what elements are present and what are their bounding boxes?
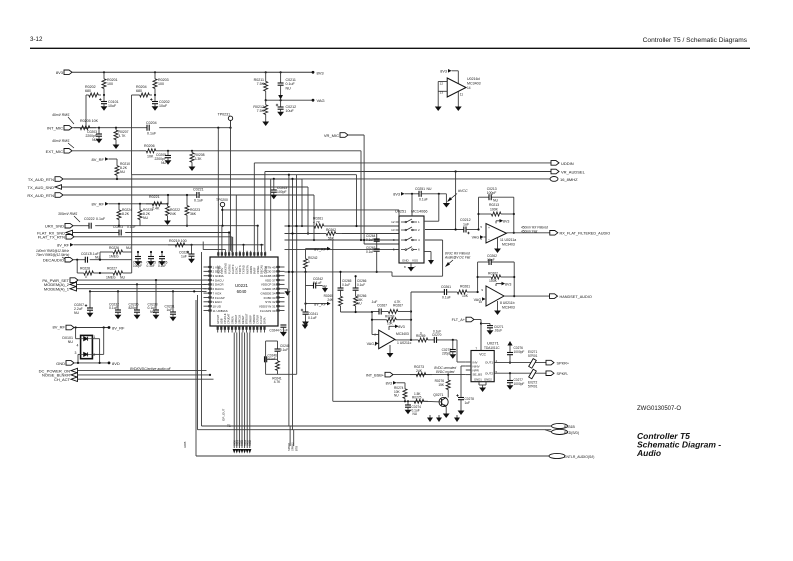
capacitor C0246 [264, 356, 266, 362]
svg-text:11 UDBIAS: 11 UDBIAS [213, 309, 228, 313]
wire 16_8MHZ [271, 178, 551, 180]
wire jog DECAUDIO region to IC [203, 249, 225, 251]
svg-text:1uF: 1uF [463, 223, 470, 227]
capacitor C0226 [161, 252, 163, 257]
svg-text:8VRF: 8VRF [253, 267, 257, 274]
svg-text:EGNC: EGNC [235, 266, 239, 274]
ground below C0243 [273, 192, 275, 195]
ground row arrow 3 [456, 415, 458, 418]
capacitor C0278 [460, 397, 462, 398]
wire DC_POWER_ON [78, 370, 207, 372]
svg-text:0.1uF: 0.1uF [366, 238, 374, 242]
svg-text:NU: NU [120, 275, 125, 279]
wire RX filter output [507, 232, 552, 234]
ground below C0101 [103, 104, 105, 107]
svg-text:R0267: R0267 [393, 304, 403, 308]
ground below C0207 [89, 310, 91, 313]
svg-text:U0271: U0271 [487, 341, 500, 346]
svg-text:2.4K: 2.4K [152, 207, 160, 211]
svg-text:R0205 10K: R0205 10K [80, 119, 99, 123]
svg-text:8 U0211b: 8 U0211b [500, 301, 515, 305]
ground below C0244 [282, 327, 284, 329]
capacitor C0225 [150, 252, 152, 257]
svg-text:8V3: 8V3 [440, 70, 447, 74]
capacitor C0266 [355, 276, 357, 288]
svg-text:2: 2 [93, 353, 95, 357]
svg-text:8V3: 8V3 [56, 70, 64, 75]
svg-text:GPOUT: GPOUT [216, 314, 220, 324]
wire box bottom [266, 373, 297, 375]
svg-text:3-12: 3-12 [30, 36, 43, 43]
ground below U0211a [497, 238, 499, 246]
wire URX_SND [73, 225, 89, 227]
capacitor C0204 [146, 125, 148, 131]
svg-text:HANDSET_AUDIO: HANDSET_AUDIO [560, 295, 592, 299]
sub box C0245 C0246 R0241 [265, 341, 267, 374]
svg-text:SPICLK: SPICLK [238, 315, 242, 324]
capacitor C0251 [418, 191, 420, 197]
svg-text:8V3: 8V3 [398, 325, 404, 329]
svg-text:NU: NU [413, 412, 418, 416]
svg-text:RESET: RESET [241, 315, 245, 324]
svg-text:70mV RMS@(12.5kHz): 70mV RMS@(12.5kHz) [36, 253, 69, 257]
wire Q0271 base [333, 400, 424, 402]
node VAG [312, 99, 315, 102]
svg-text:Q0271: Q0271 [433, 393, 443, 397]
svg-text:CNTLR_AUDIO(S/I): CNTLR_AUDIO(S/I) [564, 455, 594, 459]
svg-text:INT_MIC: INT_MIC [47, 126, 63, 131]
svg-text:16_8MHZ: 16_8MHZ [560, 177, 578, 182]
ground right of C0242 [324, 286, 326, 289]
resistor R0227 [104, 272, 113, 274]
wire FLAT_RX_SND [73, 232, 120, 234]
wire left vertical to bottom pair [201, 252, 203, 426]
svg-text:0.1uF: 0.1uF [366, 250, 374, 254]
wire EXT_MIC [72, 150, 139, 152]
svg-text:8.2K: 8.2K [122, 212, 130, 216]
svg-text:OUT2: OUT2 [485, 371, 493, 375]
capacitor C0101 [103, 95, 105, 102]
svg-text:0.1uF: 0.1uF [308, 316, 317, 320]
capacitor C0221 [196, 192, 198, 198]
svg-text:24K: 24K [170, 212, 177, 216]
arrow from C0211 to VAG wire [280, 85, 282, 96]
wire bus x289 [288, 175, 290, 426]
svg-text:40mV RMS: 40mV RMS [52, 113, 70, 117]
svg-text:NU: NU [74, 311, 79, 315]
svg-text:40mV RMS: 40mV RMS [52, 139, 70, 143]
svg-text:1 U0211c: 1 U0211c [397, 341, 412, 345]
svg-text:INTMIC: INTMIC [217, 265, 221, 274]
svg-text:220pF: 220pF [442, 352, 451, 356]
svg-text:8V_RF: 8V_RF [314, 303, 326, 307]
svg-text:FLATTX: FLATTX [231, 264, 235, 274]
svg-text:1MEG: 1MEG [109, 255, 119, 259]
svg-text:13: 13 [391, 228, 395, 232]
svg-text:R0268: R0268 [385, 315, 395, 319]
node 8V_RF right [108, 326, 111, 329]
svg-text:VAG: VAG [367, 342, 375, 346]
svg-text:INT_BSB+: INT_BSB+ [366, 373, 385, 377]
svg-text:CH_ACT: CH_ACT [54, 377, 71, 382]
wire NOISE_BLNKR [78, 374, 211, 376]
resistor R0224 [118, 204, 120, 210]
capacitor C0213 [488, 194, 490, 200]
svg-text:NU: NU [143, 216, 148, 220]
capacitor C0222 [88, 223, 90, 229]
svg-text:BTBOUT: BTBOUT [245, 313, 249, 324]
op-amp U0211b [486, 286, 504, 306]
node 8VD [108, 362, 111, 365]
ground row arrow 1 [429, 415, 431, 418]
wire bus x296.7 [296, 226, 298, 374]
svg-text:R0275: R0275 [412, 396, 422, 400]
capacitor C0263 [376, 241, 378, 249]
ground below R0212 [265, 119, 267, 122]
resistor R0208 [191, 151, 193, 153]
svg-text:Audio: Audio [636, 448, 661, 458]
svg-text:0.1uF: 0.1uF [313, 281, 322, 285]
capacitor C0243 [273, 179, 275, 190]
svg-text:EXT_MIC: EXT_MIC [46, 149, 63, 154]
svg-text:C0261: C0261 [441, 285, 451, 289]
svg-text:FLCAP: FLCAP [259, 315, 263, 324]
resistor R0203 [154, 72, 156, 79]
svg-text:R0262: R0262 [488, 272, 498, 276]
diode D0101 top element [84, 337, 88, 341]
wire audio bus step [285, 271, 393, 273]
svg-text:BTB: BTB [294, 446, 298, 451]
svg-text:R0228: R0228 [80, 267, 90, 271]
wire CH_ACT [78, 378, 214, 380]
svg-text:10K: 10K [462, 294, 469, 298]
svg-text:SE_BS: SE_BS [473, 372, 483, 376]
wire handset input [411, 291, 444, 293]
svg-text:VAG: VAG [474, 298, 482, 302]
ground below R0208 [191, 164, 193, 167]
wire 8V_RF horizontal [74, 327, 109, 329]
svg-text:RX_FLAT_FILTERED_AUDIO: RX_FLAT_FILTERED_AUDIO [560, 232, 611, 236]
svg-text:36K: 36K [190, 212, 197, 216]
capacitor C0223 [118, 230, 120, 236]
wire PA_PWR_SET [78, 279, 207, 281]
svg-text:DECAUDIO: DECAUDIO [43, 258, 64, 263]
ground below C0277 [509, 383, 511, 386]
capacitor C0273 [452, 340, 454, 350]
svg-text:14: 14 [467, 86, 471, 90]
svg-text:C0270: C0270 [432, 333, 442, 337]
feedback loop RX filter [478, 197, 480, 229]
svg-text:8V3: 8V3 [505, 283, 511, 287]
wire INT_MIC drop to IC [217, 128, 219, 251]
SPKR- output connector [546, 371, 554, 376]
op-amp U0211a [486, 224, 507, 244]
ground below C0226 [161, 259, 163, 262]
wire mic amp input node [341, 311, 373, 313]
U0271 ground pins [478, 382, 480, 385]
resistor R0210 [116, 162, 118, 166]
wire bottom pair lower [198, 429, 552, 431]
svg-text:MC3403: MC3403 [467, 82, 481, 86]
svg-text:57R01: 57R01 [528, 384, 538, 388]
svg-text:VCC: VCC [479, 353, 486, 357]
ferrite bead E0272 [529, 369, 537, 379]
wire OUT1 [494, 362, 546, 364]
feedback resistor R0268 [371, 312, 373, 335]
ground below C0224 [137, 259, 139, 262]
resistor R0204 [137, 94, 140, 96]
wire EXT_MIC drop [360, 151, 362, 240]
U0271 left pins [466, 361, 471, 363]
svg-text:SPKRM: SPKRM [252, 315, 256, 324]
svg-text:8V3: 8V3 [503, 220, 509, 224]
svg-text:11: 11 [460, 92, 464, 96]
capacitor C0212rx [463, 227, 465, 233]
ground below C0203 [98, 136, 100, 139]
wire from TX_AUD paths to IC top [221, 226, 223, 251]
svg-text:0.1uF: 0.1uF [419, 198, 428, 202]
svg-text:TDA1011C: TDA1011C [484, 346, 500, 350]
ground below Q0271 [445, 407, 447, 411]
svg-text:C0204: C0204 [146, 121, 157, 125]
resistor R0221 [146, 203, 152, 205]
svg-text:VRSEL: VRSEL [256, 265, 260, 274]
ground below C0275 [407, 407, 409, 410]
svg-text:12: 12 [391, 220, 395, 224]
capacitor C0277 [509, 373, 511, 380]
wire box top right leg [296, 175, 298, 226]
wire URX drop to IC top [257, 226, 259, 251]
capacitor C0202 [154, 95, 156, 102]
svg-text:100: 100 [107, 82, 113, 86]
svg-text:T1: T1 [227, 424, 231, 428]
ground below U0251 [410, 263, 412, 265]
svg-text:8V3: 8V3 [393, 193, 400, 197]
svg-text:MC3403: MC3403 [502, 243, 515, 247]
svg-text:MC3403: MC3403 [502, 306, 515, 310]
U0251 switch elements [396, 221, 400, 223]
svg-text:CLK16: CLK16 [263, 266, 267, 274]
svg-text:12: 12 [440, 82, 444, 86]
svg-text:#VCC: #VCC [458, 189, 468, 193]
IC U0221 body [210, 257, 278, 326]
wire row y249.6 [285, 249, 400, 251]
op-amp U0216d [447, 78, 466, 97]
svg-text:Audio@V DC Flat: Audio@V DC Flat [444, 256, 470, 260]
wire DAC bus [90, 290, 207, 292]
wire DECAUDIO [73, 259, 85, 261]
svg-text:11 U0211a: 11 U0211a [500, 238, 516, 242]
ground below C0233 [155, 312, 157, 315]
svg-text:450mV Flat: 450mV Flat [521, 229, 537, 233]
svg-text:R0226: R0226 [109, 246, 119, 250]
wire FLT_A+ [474, 319, 481, 321]
svg-text:100K: 100K [489, 279, 498, 283]
wire mic row y244 [364, 243, 399, 245]
SPKR+ output connector [546, 360, 554, 365]
svg-text:10uF: 10uF [108, 104, 117, 108]
svg-text:.01uF: .01uF [494, 329, 502, 333]
svg-text:NU: NU [357, 302, 362, 306]
capacitor C0211 [280, 72, 282, 83]
svg-text:NU: NU [286, 86, 292, 90]
wire U0251 out to RX filter [425, 229, 464, 231]
svg-text:10pF: 10pF [487, 258, 495, 262]
svg-text:C0221: C0221 [193, 188, 204, 192]
capacitor C0261 [443, 289, 445, 295]
ground below C0271 [489, 328, 491, 331]
svg-text:TXSND: TXSND [242, 265, 246, 274]
svg-text:R0206: R0206 [144, 144, 155, 148]
ground below C0205 [167, 158, 169, 161]
wire RX_AUD_RTN [63, 194, 197, 196]
svg-text:8V3: 8V3 [317, 70, 325, 75]
ferrite bead E0271 [529, 359, 537, 369]
wire OUT2 [494, 372, 546, 374]
svg-text:0.1uF: 0.1uF [96, 217, 106, 221]
svg-text:0: 0 [85, 275, 87, 279]
svg-text:3: 3 [75, 351, 77, 355]
resistor R0262b [478, 276, 492, 278]
svg-text:57R01: 57R01 [528, 354, 538, 358]
ground below C0228 [191, 256, 193, 259]
resistor R0261 [308, 225, 314, 227]
svg-text:TXRTN: TXRTN [238, 265, 242, 274]
ground below C0236 [136, 312, 138, 315]
svg-text:0.1uF: 0.1uF [194, 198, 204, 202]
svg-text:8V_RF: 8V_RF [92, 157, 105, 162]
svg-text:+: + [488, 226, 490, 230]
svg-text:UDDIN: UDDIN [561, 161, 574, 166]
capacitor C0264 [376, 234, 378, 240]
svg-text:8V_RF: 8V_RF [53, 325, 66, 330]
wire R0262 row [285, 233, 321, 235]
svg-text:NU: NU [68, 340, 74, 344]
BTB1B double connector [552, 423, 568, 428]
svg-text:R0261: R0261 [460, 285, 470, 289]
resistor R0226 [104, 251, 113, 253]
svg-text:1MEG: 1MEG [106, 275, 116, 279]
wire R0261 row [285, 225, 309, 227]
svg-text:SPKR-: SPKR- [557, 372, 569, 376]
svg-text:DECAU: DECAU [260, 265, 264, 274]
svg-text:300mV RMS: 300mV RMS [58, 212, 78, 216]
resistor R0273 [410, 374, 416, 376]
svg-text:100pF: 100pF [487, 191, 497, 195]
svg-text:7.5K: 7.5K [257, 82, 265, 86]
ground below C0273 [452, 352, 454, 355]
svg-text:OUT1: OUT1 [485, 360, 493, 364]
UDDIN output connector [551, 161, 559, 166]
IC U0221 left pins [204, 266, 211, 268]
wire TX_AUD_SND [62, 186, 309, 188]
svg-text:CPUCLK: CPUCLK [223, 313, 227, 324]
svg-text:FLCAP2 30: FLCAP2 30 [260, 309, 276, 313]
wire long vertical x332.8 [332, 240, 334, 401]
wire handset output [504, 295, 551, 297]
svg-text:VR_AUDSEL: VR_AUDSEL [561, 169, 586, 174]
svg-text:4: 4 [77, 344, 79, 348]
svg-text:SPIEN: SPIEN [230, 316, 234, 324]
wire bundle B to bottom [289, 426, 291, 446]
wire CNTLR bottom [196, 455, 549, 457]
svg-text:8V_RF: 8V_RF [314, 248, 326, 252]
wire to U0271 INV [456, 340, 458, 362]
wire GND [74, 362, 109, 364]
svg-text:VSS: VSS [412, 259, 418, 263]
resistor R0213 [479, 213, 492, 215]
svg-text:GND: GND [402, 259, 410, 263]
svg-text:4.7K: 4.7K [274, 380, 281, 384]
wire C0251 to U0251 pin14 [438, 194, 440, 221]
capacitor C0267 [372, 311, 379, 313]
capacitor C0217 [84, 257, 86, 263]
CNTLR_AUDIO connector [549, 453, 565, 458]
HANDSET_AUDIO output connector [550, 294, 558, 299]
svg-text:U0216d: U0216d [467, 77, 480, 81]
ground below C0212 [280, 109, 282, 112]
svg-text:−: − [488, 238, 490, 242]
ground below C0225 [150, 259, 152, 262]
svg-text:NU: NU [493, 199, 498, 203]
wire VR_AUDSEL drop [455, 172, 457, 230]
svg-text:0.1uF: 0.1uF [147, 132, 157, 136]
wire INT_BSB+ [393, 374, 466, 376]
svg-text:GND1: GND1 [474, 378, 482, 382]
capacitor C0265 [340, 272, 342, 288]
resistor R0266 [355, 290, 357, 296]
IC U0221 bottom pins [217, 326, 219, 333]
svg-text:UDDIN: UDDIN [249, 266, 253, 274]
svg-text:100K: 100K [490, 208, 499, 212]
svg-text:GND: GND [56, 361, 65, 366]
svg-text:TX_AUD_SND: TX_AUD_SND [28, 185, 55, 190]
svg-text:MC3403: MC3403 [396, 332, 409, 336]
wire VR_MIC [348, 134, 364, 136]
svg-text:24K: 24K [416, 369, 423, 373]
resistor R0201 [103, 72, 105, 79]
feedback loop handset [477, 262, 479, 292]
svg-text:8VD: 8VD [112, 361, 120, 366]
svg-text:6040: 6040 [237, 289, 247, 294]
svg-text:R0219 100: R0219 100 [169, 239, 187, 243]
ground row arrow 2 [438, 415, 440, 418]
svg-text:UDB: UDB [220, 318, 224, 324]
svg-text:TX_AUD_RTN: TX_AUD_RTN [28, 177, 54, 182]
wire 8V3 rail [72, 71, 314, 73]
16_8MHZ output connector [550, 177, 558, 182]
svg-text:URX_SND: URX_SND [45, 224, 64, 229]
ground right of U0251 [424, 251, 431, 253]
svg-text:0.1uF: 0.1uF [433, 329, 441, 333]
wire D0101 pin2 [92, 353, 103, 355]
svg-text:0.1uF: 0.1uF [342, 283, 350, 287]
svg-text:MC14066: MC14066 [411, 210, 427, 214]
ground below U0216d inputs [437, 104, 439, 107]
svg-text:10K: 10K [387, 322, 394, 326]
svg-text:0.1uF: 0.1uF [357, 283, 365, 287]
svg-text:4.7K: 4.7K [394, 300, 401, 304]
ground below C0231 [172, 314, 174, 317]
resistor R0275 [410, 400, 414, 402]
svg-text:SPKR+: SPKR+ [557, 361, 570, 365]
svg-text:10K: 10K [147, 155, 154, 159]
wire feedback y174.7 [132, 174, 357, 176]
wire UDDIN drop to IC top [253, 163, 255, 251]
svg-text:NU: NU [126, 246, 131, 250]
ground below C0278 [460, 408, 462, 411]
svg-text:U0221: U0221 [235, 283, 248, 288]
